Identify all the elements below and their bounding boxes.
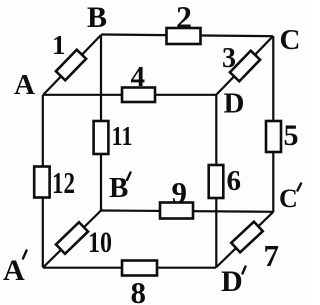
resistor R12 xyxy=(34,167,49,198)
resistor R11 xyxy=(94,121,109,154)
svg-text:C: C xyxy=(279,184,298,213)
resistor R1 xyxy=(56,50,86,81)
resistor R2 xyxy=(167,28,201,44)
resistor R7 xyxy=(231,222,263,253)
svg-text:D: D xyxy=(221,265,243,298)
svg-text:10: 10 xyxy=(88,226,112,259)
wire C-C' xyxy=(272,36,274,212)
resistor R4 xyxy=(122,88,155,103)
wire A'-D' xyxy=(43,267,216,269)
resistor R8 xyxy=(122,261,157,276)
wire B-C xyxy=(101,35,273,37)
node B' xyxy=(109,172,131,204)
node A' xyxy=(3,251,27,288)
svg-text:7: 7 xyxy=(264,238,280,273)
node D' xyxy=(221,265,246,298)
node C' xyxy=(279,184,301,214)
wire A-A' xyxy=(42,95,44,268)
wire B'-C' xyxy=(101,211,273,212)
resistor R3 xyxy=(230,51,260,82)
wire A-B xyxy=(43,35,101,95)
svg-text:D: D xyxy=(224,88,245,120)
resistor R6 xyxy=(209,165,224,198)
svg-text:A: A xyxy=(14,69,35,101)
resistor R5 xyxy=(266,121,281,152)
svg-text:3: 3 xyxy=(222,43,236,74)
wire D'-C' xyxy=(216,212,273,268)
svg-text:2: 2 xyxy=(176,0,192,35)
wire B-B' xyxy=(100,35,102,211)
resistor R10 xyxy=(56,222,88,254)
svg-text:5: 5 xyxy=(284,119,299,152)
svg-text:A: A xyxy=(3,254,25,287)
svg-text:C: C xyxy=(280,24,301,56)
wire A'-B' xyxy=(43,211,101,268)
svg-text:4: 4 xyxy=(131,61,146,93)
svg-text:12: 12 xyxy=(52,165,75,200)
resistor R9 xyxy=(160,203,193,219)
svg-text:B: B xyxy=(87,1,107,34)
svg-text:1: 1 xyxy=(52,30,66,60)
svg-text:11: 11 xyxy=(112,121,133,151)
wire D-D' xyxy=(215,95,217,268)
svg-text:6: 6 xyxy=(227,165,242,197)
svg-text:8: 8 xyxy=(131,275,147,305)
wire D-C xyxy=(217,36,274,94)
svg-text:9: 9 xyxy=(172,175,188,210)
wire A-D xyxy=(43,94,217,96)
svg-text:B: B xyxy=(109,172,128,204)
